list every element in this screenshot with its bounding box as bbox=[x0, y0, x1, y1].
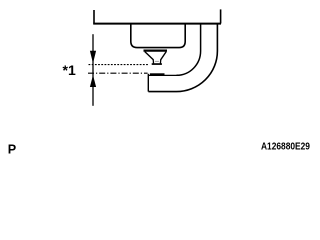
port edge thick bar bbox=[150, 73, 165, 75]
nozzle right slope bbox=[161, 52, 166, 60]
cylinder head right break tick bbox=[220, 9, 222, 23]
intake port outer wall bbox=[148, 24, 217, 92]
svg-text:A126880E29: A126880E29 bbox=[261, 141, 310, 152]
extension line 1 (dashed, nozzle tip level) bbox=[89, 64, 149, 66]
dimension up arrowhead bbox=[90, 75, 96, 87]
nozzle neck right wall bbox=[159, 59, 161, 63]
cylinder head top surface line bbox=[93, 23, 221, 25]
nozzle neck inner shading line bbox=[155, 60, 159, 62]
nozzle seat thick bar bbox=[144, 49, 168, 51]
svg-text:P: P bbox=[8, 142, 16, 156]
dimension vertical line bbox=[92, 34, 94, 106]
svg-text:*1: *1 bbox=[63, 62, 76, 78]
nozzle neck left wall bbox=[152, 59, 154, 63]
dimension down arrowhead bbox=[90, 51, 96, 64]
port left end cap bbox=[147, 74, 149, 92]
intake port inner wall horizontal line bbox=[148, 74, 176, 76]
cylinder head left break tick bbox=[93, 10, 95, 24]
nozzle tip bottom bar bbox=[152, 63, 162, 65]
nozzle left slope bbox=[145, 52, 153, 60]
extension line 2 (dash-dot, port edge level) bbox=[88, 72, 148, 74]
intake port inner wall (vertical + arc) bbox=[177, 24, 201, 76]
injector bore cavity (cup) bbox=[131, 24, 185, 48]
